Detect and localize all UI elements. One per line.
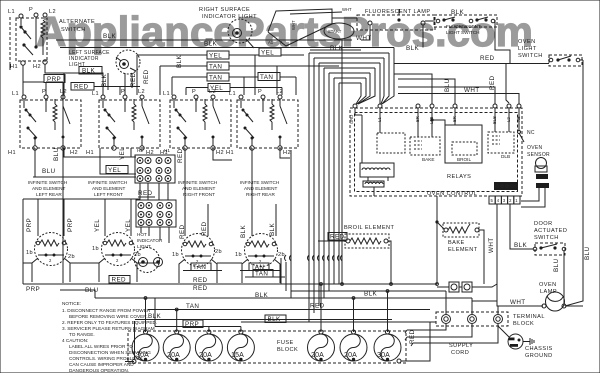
svg-text:L2: L2 — [138, 89, 145, 95]
svg-text:CORD: CORD — [451, 350, 469, 356]
oven control top terminals — [349, 104, 521, 124]
svg-text:INFINITE SWITCH: INFINITE SWITCH — [28, 180, 67, 185]
svg-text:BLU: BLU — [553, 258, 560, 272]
svg-text:BAKE: BAKE — [448, 240, 465, 246]
fluorescent light switch label — [446, 9, 481, 35]
bake relay K2 — [410, 137, 440, 162]
left surface indicator light label — [69, 50, 110, 68]
infinite switch right front — [160, 89, 231, 156]
svg-text:LIGHT: LIGHT — [518, 46, 537, 52]
svg-text:1b: 1b — [172, 252, 179, 258]
svg-text:2: 2 — [509, 198, 512, 203]
svg-text:BLOCK: BLOCK — [513, 321, 534, 327]
oven light switch — [480, 55, 582, 66]
svg-text:BLK: BLK — [204, 41, 218, 48]
svg-text:INDICATOR LIGHT: INDICATOR LIGHT — [202, 14, 257, 20]
svg-text:CAN CAUSE IMPROPER AND: CAN CAUSE IMPROPER AND — [69, 362, 134, 367]
svg-text:PRP: PRP — [26, 286, 40, 293]
svg-text:4: 4 — [497, 198, 500, 203]
svg-text:2b: 2b — [68, 254, 75, 260]
svg-text:P: P — [121, 89, 125, 95]
svg-text:RIGHT SURFACE: RIGHT SURFACE — [199, 7, 250, 13]
supply cord wires — [405, 324, 498, 356]
svg-text:TAN: TAN — [193, 264, 206, 271]
svg-text:1: 1 — [515, 198, 518, 203]
wire fluorescent area — [310, 9, 583, 306]
oven sensor label — [527, 145, 550, 158]
svg-text:RED: RED — [480, 55, 495, 62]
svg-text:ACTUATED: ACTUATED — [534, 228, 567, 234]
svg-text:WHT: WHT — [291, 20, 296, 30]
svg-text:RED: RED — [201, 221, 208, 236]
svg-text:L2: L2 — [276, 89, 283, 95]
svg-text:RED: RED — [112, 277, 127, 284]
svg-text:L2: L2 — [209, 89, 216, 95]
fuse F6 20A — [340, 330, 367, 361]
svg-text:SWITCH: SWITCH — [61, 27, 86, 33]
svg-text:TAN: TAN — [209, 75, 222, 82]
fuse F3 20A — [195, 330, 222, 361]
door actuated switch label — [534, 221, 567, 241]
hot indicator light DS3 — [135, 248, 163, 273]
svg-text:CHASSIS: CHASSIS — [525, 346, 553, 352]
light switch terminal squares — [437, 282, 497, 292]
svg-text:WHT: WHT — [510, 299, 526, 306]
svg-text:4 CAUTION:: 4 CAUTION: — [62, 338, 88, 343]
svg-text:P: P — [258, 89, 262, 95]
fuse F1 30A — [132, 330, 159, 361]
svg-text:P: P — [192, 89, 196, 95]
svg-text:WHT: WHT — [356, 35, 372, 42]
fuse block box — [128, 331, 406, 363]
svg-text:PRP: PRP — [26, 218, 33, 232]
svg-text:2. REFER ONLY TO FEATURES EQUI: 2. REFER ONLY TO FEATURES EQUIPPED. — [62, 320, 157, 325]
wire oven control to door switch — [472, 204, 543, 312]
svg-text:2b: 2b — [215, 249, 222, 255]
svg-text:RELAYS: RELAYS — [447, 174, 471, 180]
oven control internal wires — [355, 108, 509, 196]
svg-text:BLU: BLU — [584, 246, 591, 260]
right surface indicator light DS2 — [228, 19, 254, 48]
surface element right front — [172, 221, 222, 283]
svg-text:15A: 15A — [231, 352, 244, 359]
svg-text:BLK: BLK — [101, 73, 108, 87]
wire node labels top-left — [44, 33, 218, 91]
svg-text:BROIL ELEMENT: BROIL ELEMENT — [344, 225, 395, 231]
oven control pin connector — [494, 182, 518, 190]
fluorescent light switch — [434, 15, 497, 27]
fuse F7 30A — [374, 330, 401, 361]
svg-text:AND ELEMENT: AND ELEMENT — [182, 186, 215, 191]
wire fuse drops — [125, 284, 430, 364]
svg-text:L1: L1 — [12, 91, 19, 97]
svg-text:BLK: BLK — [103, 33, 117, 40]
svg-text:L1: L1 — [8, 9, 15, 15]
svg-text:1b: 1b — [92, 246, 99, 252]
left surface indicator light DS1 — [116, 50, 140, 74]
oven lamp DS4 — [542, 292, 583, 311]
svg-text:LEFT FRONT: LEFT FRONT — [94, 192, 123, 197]
svg-text:H2: H2 — [70, 150, 78, 156]
svg-text:WHT: WHT — [464, 87, 480, 94]
svg-text:START: START — [328, 29, 342, 34]
svg-text:20A: 20A — [199, 352, 212, 359]
svg-text:20A: 20A — [167, 352, 180, 359]
svg-text:RED: RED — [177, 148, 184, 163]
svg-text:BLK: BLK — [255, 292, 269, 299]
svg-text:L2: L2 — [60, 89, 67, 95]
svg-text:RED: RED — [193, 277, 208, 284]
svg-text:WHT: WHT — [342, 7, 352, 12]
svg-text:H1: H1 — [226, 150, 234, 156]
svg-text:A1: A1 — [268, 40, 274, 45]
svg-text:YEL: YEL — [209, 53, 222, 60]
oven control box — [350, 108, 522, 197]
svg-text:P: P — [42, 89, 46, 95]
svg-text:TAN: TAN — [260, 74, 273, 81]
svg-text:TAN: TAN — [255, 271, 268, 278]
svg-text:LIGHT SWITCH: LIGHT SWITCH — [446, 30, 480, 35]
svg-text:DOOR: DOOR — [534, 221, 553, 227]
svg-text:A: A — [280, 40, 283, 45]
svg-text:SWITCH: SWITCH — [518, 53, 543, 59]
bake element R2 — [435, 196, 484, 284]
svg-text:DANGEROUS OPERATION.: DANGEROUS OPERATION. — [69, 368, 129, 373]
svg-text:RED: RED — [193, 285, 208, 292]
broil element R1 — [318, 233, 391, 285]
svg-text:H1: H1 — [10, 64, 18, 70]
svg-text:INDICATOR: INDICATOR — [137, 238, 163, 243]
svg-text:WHT: WHT — [488, 237, 495, 253]
svg-text:BAKE: BAKE — [422, 157, 435, 162]
wire staircase to right bundle — [60, 40, 394, 322]
oven lamp label — [539, 282, 557, 295]
svg-text:RED: RED — [130, 72, 137, 87]
fluorescent fixture outline — [268, 7, 352, 46]
surface element left rear — [26, 218, 75, 282]
fuse F2 20A — [163, 330, 190, 361]
fluorescent lamp — [357, 15, 435, 30]
svg-text:BLOCK: BLOCK — [277, 347, 298, 353]
door actuated switch — [533, 243, 591, 306]
svg-text:H2: H2 — [283, 150, 291, 156]
oven light switch label — [518, 39, 543, 59]
svg-text:3. SERVICER PLEASE RETURN DIAG: 3. SERVICER PLEASE RETURN DIAGRAM — [62, 326, 155, 331]
starter — [324, 23, 420, 52]
svg-text:BLU: BLU — [444, 78, 451, 92]
svg-text:GROUND: GROUND — [525, 353, 553, 359]
svg-text:1. DISCONNECT RANGE FROM POWER: 1. DISCONNECT RANGE FROM POWER — [62, 308, 151, 313]
svg-text:NC: NC — [527, 130, 535, 136]
svg-text:BLK: BLK — [269, 222, 276, 236]
svg-text:AND ELEMENT: AND ELEMENT — [92, 186, 125, 191]
svg-text:LEFT REAR: LEFT REAR — [36, 192, 62, 197]
svg-text:OVEN: OVEN — [518, 39, 536, 45]
wire oven control terminal risers — [394, 64, 519, 105]
svg-text:SWITCH: SWITCH — [534, 235, 559, 241]
svg-text:BLK: BLK — [406, 45, 420, 52]
alternate switch SW1 body — [16, 17, 47, 61]
svg-text:3: 3 — [503, 198, 506, 203]
label infinite switch right rear — [240, 180, 279, 197]
wire junction dots — [144, 283, 438, 311]
svg-text:GRD: GRD — [349, 115, 354, 124]
svg-text:BLK: BLK — [268, 316, 282, 323]
svg-text:RED: RED — [143, 69, 150, 84]
svg-text:1b: 1b — [26, 250, 33, 256]
wire bottom buses left — [23, 263, 472, 359]
wire yel/tan label nest — [137, 48, 339, 95]
svg-text:2b: 2b — [278, 252, 285, 258]
svg-text:H2: H2 — [33, 64, 41, 70]
svg-text:20A: 20A — [344, 352, 357, 359]
oven control pin row 5 4 3 2 1 — [489, 196, 520, 204]
svg-text:RIGHT FRONT: RIGHT FRONT — [183, 192, 215, 197]
wire switch H to element leads — [23, 147, 290, 294]
svg-text:30A: 30A — [136, 352, 149, 359]
svg-text:H1: H1 — [86, 150, 94, 156]
infinite switch left front — [86, 89, 160, 156]
svg-text:OVEN: OVEN — [539, 282, 557, 288]
broil relay K3 — [445, 125, 482, 163]
svg-text:FLUORESCENT LAMP: FLUORESCENT LAMP — [365, 9, 431, 15]
svg-text:H1: H1 — [8, 150, 16, 156]
svg-text:RED: RED — [310, 303, 325, 310]
svg-text:INFINITE SWITCH: INFINITE SWITCH — [240, 180, 279, 185]
svg-text:BLK: BLK — [514, 242, 528, 249]
transformer T1 — [360, 163, 394, 187]
svg-text:L1: L1 — [163, 91, 170, 97]
infinite switch left rear — [8, 89, 81, 156]
infinite switch right rear — [226, 89, 298, 156]
svg-text:SUPPLY: SUPPLY — [449, 343, 473, 349]
connector block P1 — [135, 148, 175, 243]
svg-text:L2: L2 — [49, 9, 56, 15]
svg-text:LABEL ALL WIRES PRIOR TO: LABEL ALL WIRES PRIOR TO — [69, 344, 133, 349]
svg-text:SENSOR: SENSOR — [527, 152, 550, 158]
bake element label — [448, 240, 478, 253]
svg-text:BLU: BLU — [53, 147, 60, 161]
alternate switch H1 H2 terminals — [10, 60, 47, 70]
svg-text:H2: H2 — [137, 148, 143, 153]
wire left risers to switch row — [9, 17, 11, 62]
oven sensor RT1 — [521, 158, 549, 208]
svg-text:PRP: PRP — [67, 218, 74, 232]
svg-text:RED: RED — [489, 75, 496, 90]
wire BLK top horizontal — [56, 40, 342, 48]
connector block P2 — [136, 148, 184, 227]
svg-text:YEL: YEL — [261, 50, 274, 57]
svg-text:P: P — [29, 7, 33, 13]
wire terminal block risers — [430, 291, 498, 322]
DBL relay K4 — [488, 132, 514, 159]
svg-text:OVEN CONTROL: OVEN CONTROL — [427, 191, 477, 197]
fuse F5 20A — [308, 330, 335, 361]
svg-text:YEL: YEL — [94, 219, 101, 232]
svg-text:RED: RED — [74, 84, 89, 91]
alternate switch SW1 terminals — [8, 7, 56, 18]
svg-text:BEFORE REMOVING WIRE COVER.: BEFORE REMOVING WIRE COVER. — [69, 314, 148, 319]
svg-text:YEL: YEL — [119, 147, 126, 160]
label infinite switch left rear — [28, 180, 67, 197]
svg-text:BLK: BLK — [330, 45, 344, 52]
svg-text:1b: 1b — [235, 252, 242, 258]
svg-text:TO RANGE.: TO RANGE. — [69, 332, 95, 337]
svg-text:CONTROLS. WIRING PROBLEMS: CONTROLS. WIRING PROBLEMS — [69, 356, 142, 361]
chassis ground label — [525, 346, 553, 359]
surface element left front — [92, 219, 141, 282]
svg-text:AND ELEMENT: AND ELEMENT — [244, 186, 277, 191]
NC contact — [518, 108, 535, 142]
svg-text:20A: 20A — [311, 352, 324, 359]
hot indicator light label — [137, 232, 163, 249]
svg-text:NOTICE:: NOTICE: — [62, 301, 81, 306]
svg-text:BLK: BLK — [364, 291, 378, 298]
chassis ground plug — [498, 326, 534, 349]
notice text — [62, 301, 157, 373]
svg-text:FUSE: FUSE — [277, 340, 294, 346]
svg-text:BLU: BLU — [42, 168, 56, 175]
label ALTERNATE SWITCH — [59, 19, 95, 33]
svg-text:L1: L1 — [229, 91, 236, 97]
svg-text:OVEN: OVEN — [527, 145, 542, 151]
svg-text:BLK: BLK — [148, 313, 162, 320]
terminal block box — [436, 312, 545, 327]
svg-text:RED: RED — [138, 190, 153, 197]
label infinite switch left front — [88, 180, 127, 197]
svg-text:H1: H1 — [164, 148, 170, 153]
svg-text:YEL: YEL — [108, 167, 121, 174]
surface element right rear — [235, 222, 285, 283]
svg-text:TAN: TAN — [209, 64, 222, 71]
label infinite switch right front — [178, 180, 217, 197]
svg-text:BROIL: BROIL — [457, 157, 471, 162]
svg-text:RED: RED — [330, 234, 345, 241]
svg-text:ALTERNATE: ALTERNATE — [59, 19, 95, 25]
svg-text:HOT: HOT — [137, 232, 147, 237]
svg-text:H2: H2 — [216, 150, 224, 156]
svg-text:INFINITE SWITCH: INFINITE SWITCH — [178, 180, 217, 185]
svg-text:BLK: BLK — [451, 9, 465, 16]
relay K1 box — [377, 133, 405, 153]
svg-text:PRP: PRP — [185, 321, 199, 328]
svg-text:ELEMENT: ELEMENT — [448, 247, 478, 253]
svg-text:DLB: DLB — [501, 154, 510, 159]
svg-text:BLK: BLK — [240, 224, 247, 238]
right surface indicator light label — [199, 7, 257, 20]
svg-text:TERMINAL: TERMINAL — [513, 314, 545, 320]
svg-text:RIGHT REAR: RIGHT REAR — [246, 192, 275, 197]
svg-text:INFINITE SWITCH: INFINITE SWITCH — [88, 180, 127, 185]
svg-text:TAN: TAN — [186, 303, 199, 310]
svg-text:30A: 30A — [377, 352, 390, 359]
svg-text:AND ELEMENT: AND ELEMENT — [32, 186, 65, 191]
fuse F4 15A — [227, 330, 254, 361]
svg-text:L1: L1 — [92, 91, 99, 97]
svg-text:5: 5 — [491, 198, 494, 203]
terminal block terminals — [442, 315, 503, 324]
